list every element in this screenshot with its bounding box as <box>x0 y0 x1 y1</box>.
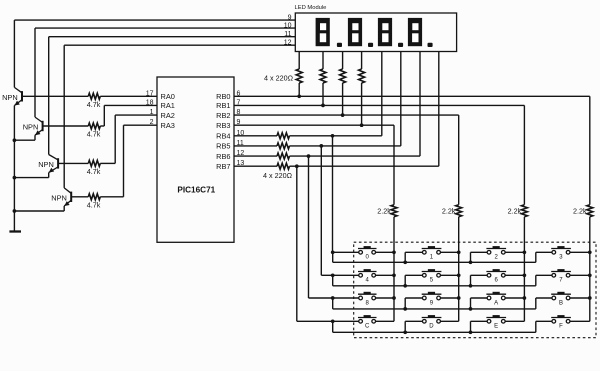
svg-text:2.2k: 2.2k <box>508 206 522 215</box>
svg-text:RA1: RA1 <box>161 101 175 110</box>
svg-text:C: C <box>365 324 370 330</box>
svg-text:A: A <box>494 300 498 306</box>
svg-text:RB1: RB1 <box>216 101 230 110</box>
svg-text:8: 8 <box>365 300 369 306</box>
svg-text:RB5: RB5 <box>216 142 230 151</box>
svg-text:4 x 220Ω: 4 x 220Ω <box>264 74 294 83</box>
svg-text:RB7: RB7 <box>216 162 230 171</box>
svg-text:4.7k: 4.7k <box>87 130 101 139</box>
svg-text:RB3: RB3 <box>216 121 230 130</box>
svg-text:11: 11 <box>284 31 291 38</box>
svg-text:1: 1 <box>430 255 434 261</box>
svg-text:F: F <box>559 324 563 330</box>
svg-text:6: 6 <box>494 278 498 284</box>
svg-text:4.7k: 4.7k <box>87 100 101 109</box>
svg-text:RB6: RB6 <box>216 152 230 161</box>
svg-text:E: E <box>494 324 498 330</box>
svg-text:9: 9 <box>430 300 434 306</box>
svg-text:RB2: RB2 <box>216 111 230 120</box>
svg-text:LED Module: LED Module <box>295 5 327 11</box>
svg-text:5: 5 <box>430 278 434 284</box>
svg-text:NPN: NPN <box>23 123 39 132</box>
svg-text:0: 0 <box>365 255 369 261</box>
svg-text:10: 10 <box>284 22 292 29</box>
svg-text:4.7k: 4.7k <box>87 200 101 209</box>
svg-text:PIC16C71: PIC16C71 <box>177 185 215 194</box>
svg-text:9: 9 <box>288 14 292 21</box>
svg-text:4: 4 <box>365 278 369 284</box>
svg-text:2.2k: 2.2k <box>573 206 587 215</box>
svg-text:RB4: RB4 <box>216 132 230 141</box>
svg-text:B: B <box>559 300 563 306</box>
svg-text:RB0: RB0 <box>216 92 230 101</box>
svg-text:NPN: NPN <box>38 160 54 169</box>
svg-text:NPN: NPN <box>2 93 18 102</box>
svg-text:RA3: RA3 <box>161 121 175 130</box>
svg-text:4.7k: 4.7k <box>87 167 101 176</box>
svg-text:12: 12 <box>284 40 292 47</box>
svg-text:NPN: NPN <box>51 193 67 202</box>
svg-text:4 x 220Ω: 4 x 220Ω <box>263 171 293 180</box>
svg-text:2.2k: 2.2k <box>377 206 391 215</box>
svg-text:2: 2 <box>494 255 498 261</box>
svg-text:D: D <box>429 324 434 330</box>
svg-text:2.2k: 2.2k <box>442 206 456 215</box>
svg-text:3: 3 <box>559 255 563 261</box>
svg-text:RA2: RA2 <box>161 111 175 120</box>
svg-text:RA0: RA0 <box>161 92 175 101</box>
svg-text:7: 7 <box>559 278 563 284</box>
